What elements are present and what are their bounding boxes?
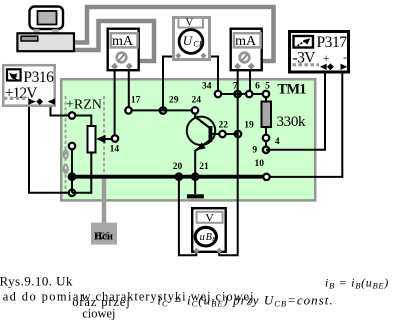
svg-text:24: 24 [192, 96, 202, 106]
svg-text:20: 20 [173, 162, 183, 172]
svg-text:5: 5 [265, 81, 270, 91]
svg-text:34: 34 [202, 81, 212, 91]
svg-text:-: - [343, 50, 347, 64]
svg-text:+RZN: +RZN [66, 98, 102, 113]
svg-text:iB = iB(uBE): iB = iB(uBE) [325, 276, 388, 291]
svg-text:21: 21 [199, 162, 209, 172]
svg-text:22: 22 [219, 120, 229, 130]
svg-text:mA: mA [235, 34, 257, 49]
svg-text:+: + [323, 51, 330, 65]
svg-text:B: B [206, 232, 212, 243]
svg-text:17: 17 [131, 96, 141, 106]
svg-text:V: V [205, 210, 214, 224]
svg-text:u: u [200, 232, 205, 243]
svg-text:E: E [211, 236, 216, 243]
svg-text:V: V [185, 17, 193, 29]
svg-text:14: 14 [110, 145, 120, 155]
svg-text:10: 10 [254, 159, 264, 169]
svg-text:+12V: +12V [5, 85, 39, 102]
svg-text:ciowej: ciowej [82, 307, 115, 320]
svg-text:7: 7 [233, 81, 238, 91]
svg-text:б2б: б2б [96, 231, 110, 241]
svg-text:CB: CB [193, 38, 204, 48]
svg-text:19: 19 [244, 120, 254, 130]
svg-text:mA: mA [112, 34, 134, 49]
svg-text:Rys.9.10. Uk: Rys.9.10. Uk [0, 274, 73, 289]
svg-text:9: 9 [252, 146, 257, 156]
svg-text:TM1: TM1 [278, 82, 307, 98]
svg-text:4: 4 [275, 137, 280, 147]
svg-text:iC = iC(uBE) przy UCB=const.: iC = iC(uBE) przy UCB=const. [157, 292, 332, 308]
svg-text:P317: P317 [317, 34, 348, 51]
svg-text:P316: P316 [23, 69, 54, 86]
svg-text:29: 29 [169, 96, 179, 106]
svg-text:U: U [183, 33, 194, 48]
svg-text:330k: 330k [277, 114, 307, 130]
svg-text:6: 6 [255, 81, 260, 91]
